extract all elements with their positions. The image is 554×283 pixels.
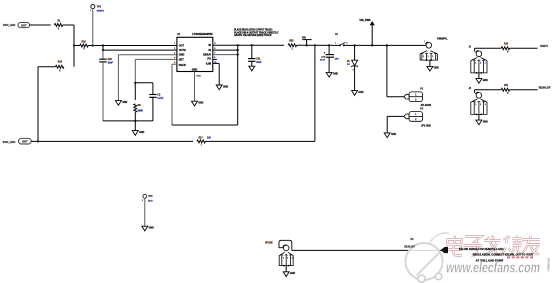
svg-text:OUT: OUT <box>179 43 185 47</box>
svg-text:GND: GND <box>223 86 228 88</box>
wire EN/UV <box>213 54 238 56</box>
wire SET <box>135 59 177 82</box>
svg-text:VIN/PL: VIN/PL <box>437 38 448 41</box>
wire OUTS <box>103 46 177 51</box>
svg-text:07290-001: 07290-001 <box>547 257 551 271</box>
wire <box>144 198 146 226</box>
capacitor C10 <box>99 50 113 64</box>
wire VCO_LDO rail <box>31 140 193 142</box>
svg-text:JP1-GND: JP1-GND <box>421 126 431 128</box>
svg-text:10uF: 10uF <box>256 62 262 64</box>
svg-text:PAD: PAD <box>197 74 202 77</box>
node junction <box>251 44 253 46</box>
test point TP4 <box>142 194 153 202</box>
resistor R8 <box>134 104 144 113</box>
svg-text:TP4: TP4 <box>148 195 153 198</box>
op-amp U2 LT3045 regulator <box>174 33 217 72</box>
wire input rail <box>297 44 340 46</box>
svg-text:1: 1 <box>423 56 424 58</box>
svg-text:PGFB: PGFB <box>179 63 186 67</box>
wire ILIM <box>213 63 219 85</box>
svg-text:R14: R14 <box>58 61 63 64</box>
svg-text:1: 1 <box>485 104 486 106</box>
net label KELVIN_OUT <box>539 88 551 90</box>
svg-text:47uF: 47uF <box>320 59 326 62</box>
svg-text:GND: GND <box>434 68 439 70</box>
node junction <box>37 140 39 142</box>
wire IN2 <box>213 49 238 51</box>
node junction <box>306 44 317 46</box>
wire <box>73 46 75 67</box>
doc number <box>547 257 551 271</box>
wire GND pin3 <box>118 55 176 101</box>
capacitor C12 <box>135 83 164 121</box>
svg-text:VOUT: VOUT <box>540 45 549 48</box>
connector P3 <box>404 108 431 127</box>
svg-text:499K: 499K <box>138 110 144 113</box>
svg-text:PG: PG <box>207 56 211 60</box>
power arrow VIN_PWR <box>359 19 374 46</box>
ground <box>142 226 154 231</box>
node junction <box>134 120 136 122</box>
node junction <box>237 44 239 56</box>
wire VCO_LDO rail <box>205 45 315 141</box>
switch S1 <box>335 34 347 46</box>
svg-text:1: 1 <box>480 63 481 65</box>
svg-text:GND: GND <box>483 121 488 123</box>
svg-text:1: 1 <box>480 104 481 106</box>
port VCC_LDO <box>3 22 30 27</box>
svg-text:SET: SET <box>179 57 184 61</box>
net label VOUT <box>540 45 549 48</box>
svg-text:R11: R11 <box>504 85 509 87</box>
svg-text:1: 1 <box>283 257 284 259</box>
resistor R15 <box>288 40 296 50</box>
svg-text:OUTS: OUTS <box>179 48 186 52</box>
svg-text:VIN_PWR: VIN_PWR <box>359 19 370 22</box>
wire <box>92 9 94 46</box>
svg-text:1: 1 <box>335 42 336 44</box>
svg-text:VCC_LDO: VCC_LDO <box>3 23 15 27</box>
wire <box>475 89 502 91</box>
svg-text:R15: R15 <box>289 40 294 42</box>
port VCO_LDO <box>3 138 32 144</box>
svg-text:R17: R17 <box>199 137 204 139</box>
svg-text:1: 1 <box>287 257 288 259</box>
watermark red subtext <box>507 256 533 258</box>
svg-text:R10: R10 <box>504 44 509 46</box>
svg-text:JP1-KNOB: JP1-KNOB <box>421 105 432 107</box>
wire <box>134 112 136 121</box>
svg-text:GND: GND <box>149 228 154 230</box>
watermark logo circle <box>406 233 450 282</box>
wire PGFB <box>172 55 238 125</box>
svg-text:4.7uF: 4.7uF <box>157 97 164 100</box>
wire <box>134 121 136 131</box>
resistor R17 <box>197 137 212 146</box>
svg-text:VIN: VIN <box>302 37 306 40</box>
svg-text:1: 1 <box>428 56 429 58</box>
svg-text:WHITE: WHITE <box>97 11 105 13</box>
node junction <box>386 44 388 46</box>
svg-text:1: 1 <box>424 41 425 43</box>
ground <box>192 101 204 106</box>
zener diode D1 <box>347 45 358 90</box>
svg-text:AT THE LOAD POINT: AT THE LOAD POINT <box>476 260 504 263</box>
svg-text:LT3045EDD#PBF: LT3045EDD#PBF <box>192 33 213 36</box>
svg-text:KELVIN SENSE FOR REMOTE LOAD: KELVIN SENSE FOR REMOTE LOAD <box>459 248 504 251</box>
svg-text:KELVIN_OUT: KELVIN_OUT <box>404 246 415 248</box>
svg-text:C11: C11 <box>256 58 261 60</box>
node junction <box>102 49 104 51</box>
svg-text:GND: GND <box>192 69 198 72</box>
svg-text:KELVIN_OUT: KELVIN_OUT <box>539 88 551 90</box>
ground <box>249 66 255 71</box>
svg-text:2: 2 <box>346 42 347 44</box>
connector J2 <box>469 47 488 79</box>
wire <box>510 89 538 91</box>
wire <box>103 62 135 121</box>
note text <box>459 248 534 262</box>
svg-text:1: 1 <box>432 56 433 58</box>
svg-text:GND: GND <box>122 102 127 104</box>
wire P2 <box>387 45 404 96</box>
svg-text:1: 1 <box>142 200 143 202</box>
ground <box>115 101 127 106</box>
wire <box>510 47 538 49</box>
watermark url <box>446 260 540 277</box>
ground <box>283 272 295 277</box>
ground <box>132 131 144 136</box>
svg-text:1: 1 <box>437 56 438 58</box>
svg-text:ILIM: ILIM <box>206 61 211 65</box>
capacitor C13 <box>320 44 339 72</box>
svg-text:OUT: OUT <box>21 23 27 27</box>
wire P3 <box>387 116 404 132</box>
node junction <box>354 44 356 46</box>
ground <box>427 66 439 71</box>
off-page arrow <box>441 247 448 253</box>
wire <box>30 24 51 26</box>
svg-text:1: 1 <box>475 63 476 65</box>
wire IN <box>213 44 284 46</box>
svg-text:IN: IN <box>208 48 211 52</box>
svg-text:REGULATION. CONNECT KELVIN_OUT: REGULATION. CONNECT KELVIN_OUT TO VOUT <box>473 254 534 257</box>
ground <box>476 79 488 84</box>
resistor R2 <box>56 61 64 73</box>
svg-text:+: + <box>324 51 326 55</box>
svg-text:IN: IN <box>208 43 211 47</box>
resistor R11 <box>501 85 509 95</box>
svg-text:10uF: 10uF <box>108 63 114 65</box>
svg-text:GND: GND <box>139 132 144 134</box>
svg-text:GND: GND <box>290 273 295 275</box>
wire input rail <box>344 44 426 46</box>
connector J4 VFUSE <box>265 240 293 271</box>
svg-text:1: 1 <box>90 10 91 12</box>
watermark chinese text <box>446 236 541 256</box>
svg-text:VFUSE: VFUSE <box>265 243 273 245</box>
svg-text:C10: C10 <box>108 59 113 61</box>
connector J3 <box>469 88 488 120</box>
ground <box>352 91 364 96</box>
connector J1 VIN/PL <box>420 38 448 67</box>
connector P2 <box>404 89 431 108</box>
wire <box>475 47 502 49</box>
svg-text:GND: GND <box>198 103 203 105</box>
svg-text:1: 1 <box>475 104 476 106</box>
svg-text:GND: GND <box>333 74 338 76</box>
note text <box>234 29 279 38</box>
svg-text:1: 1 <box>485 63 486 65</box>
net label <box>404 238 415 248</box>
wire pad <box>195 72 202 102</box>
node junction <box>92 44 105 46</box>
svg-text:2: 2 <box>353 69 354 71</box>
ground <box>326 72 338 77</box>
wire <box>63 25 74 46</box>
wire OUT <box>88 45 177 47</box>
resistor R1 <box>54 21 62 31</box>
power flag VIN <box>302 37 312 46</box>
svg-text:25V: 25V <box>335 58 339 60</box>
svg-text:BLK: BLK <box>148 200 153 202</box>
ground <box>476 120 488 125</box>
node junction <box>134 82 136 84</box>
svg-text:R16: R16 <box>82 41 87 43</box>
ground <box>216 85 228 90</box>
svg-text:GND: GND <box>358 92 363 94</box>
wire <box>134 83 136 100</box>
svg-text:OUT: OUT <box>22 139 28 143</box>
test point TP1 <box>90 5 104 13</box>
svg-text:GND: GND <box>483 80 488 82</box>
wire <box>38 67 56 142</box>
svg-text:TP1: TP1 <box>97 6 102 8</box>
resistor R16 <box>80 41 88 50</box>
ground <box>384 133 396 138</box>
node junction <box>73 44 75 46</box>
svg-text:ABOVE THE RETURN (GND) TRACK: ABOVE THE RETURN (GND) TRACK <box>234 34 272 37</box>
svg-text:GND: GND <box>179 53 185 57</box>
resistor R10 <box>501 44 509 54</box>
capacitor C11 <box>248 45 262 66</box>
svg-text:GND: GND <box>391 134 396 136</box>
svg-text:1: 1 <box>292 257 293 259</box>
wire OUT <box>74 45 80 47</box>
svg-text:EN/UV: EN/UV <box>203 53 211 57</box>
wire KELVIN <box>292 249 442 251</box>
svg-text:VCO_LDO: VCO_LDO <box>3 140 16 144</box>
